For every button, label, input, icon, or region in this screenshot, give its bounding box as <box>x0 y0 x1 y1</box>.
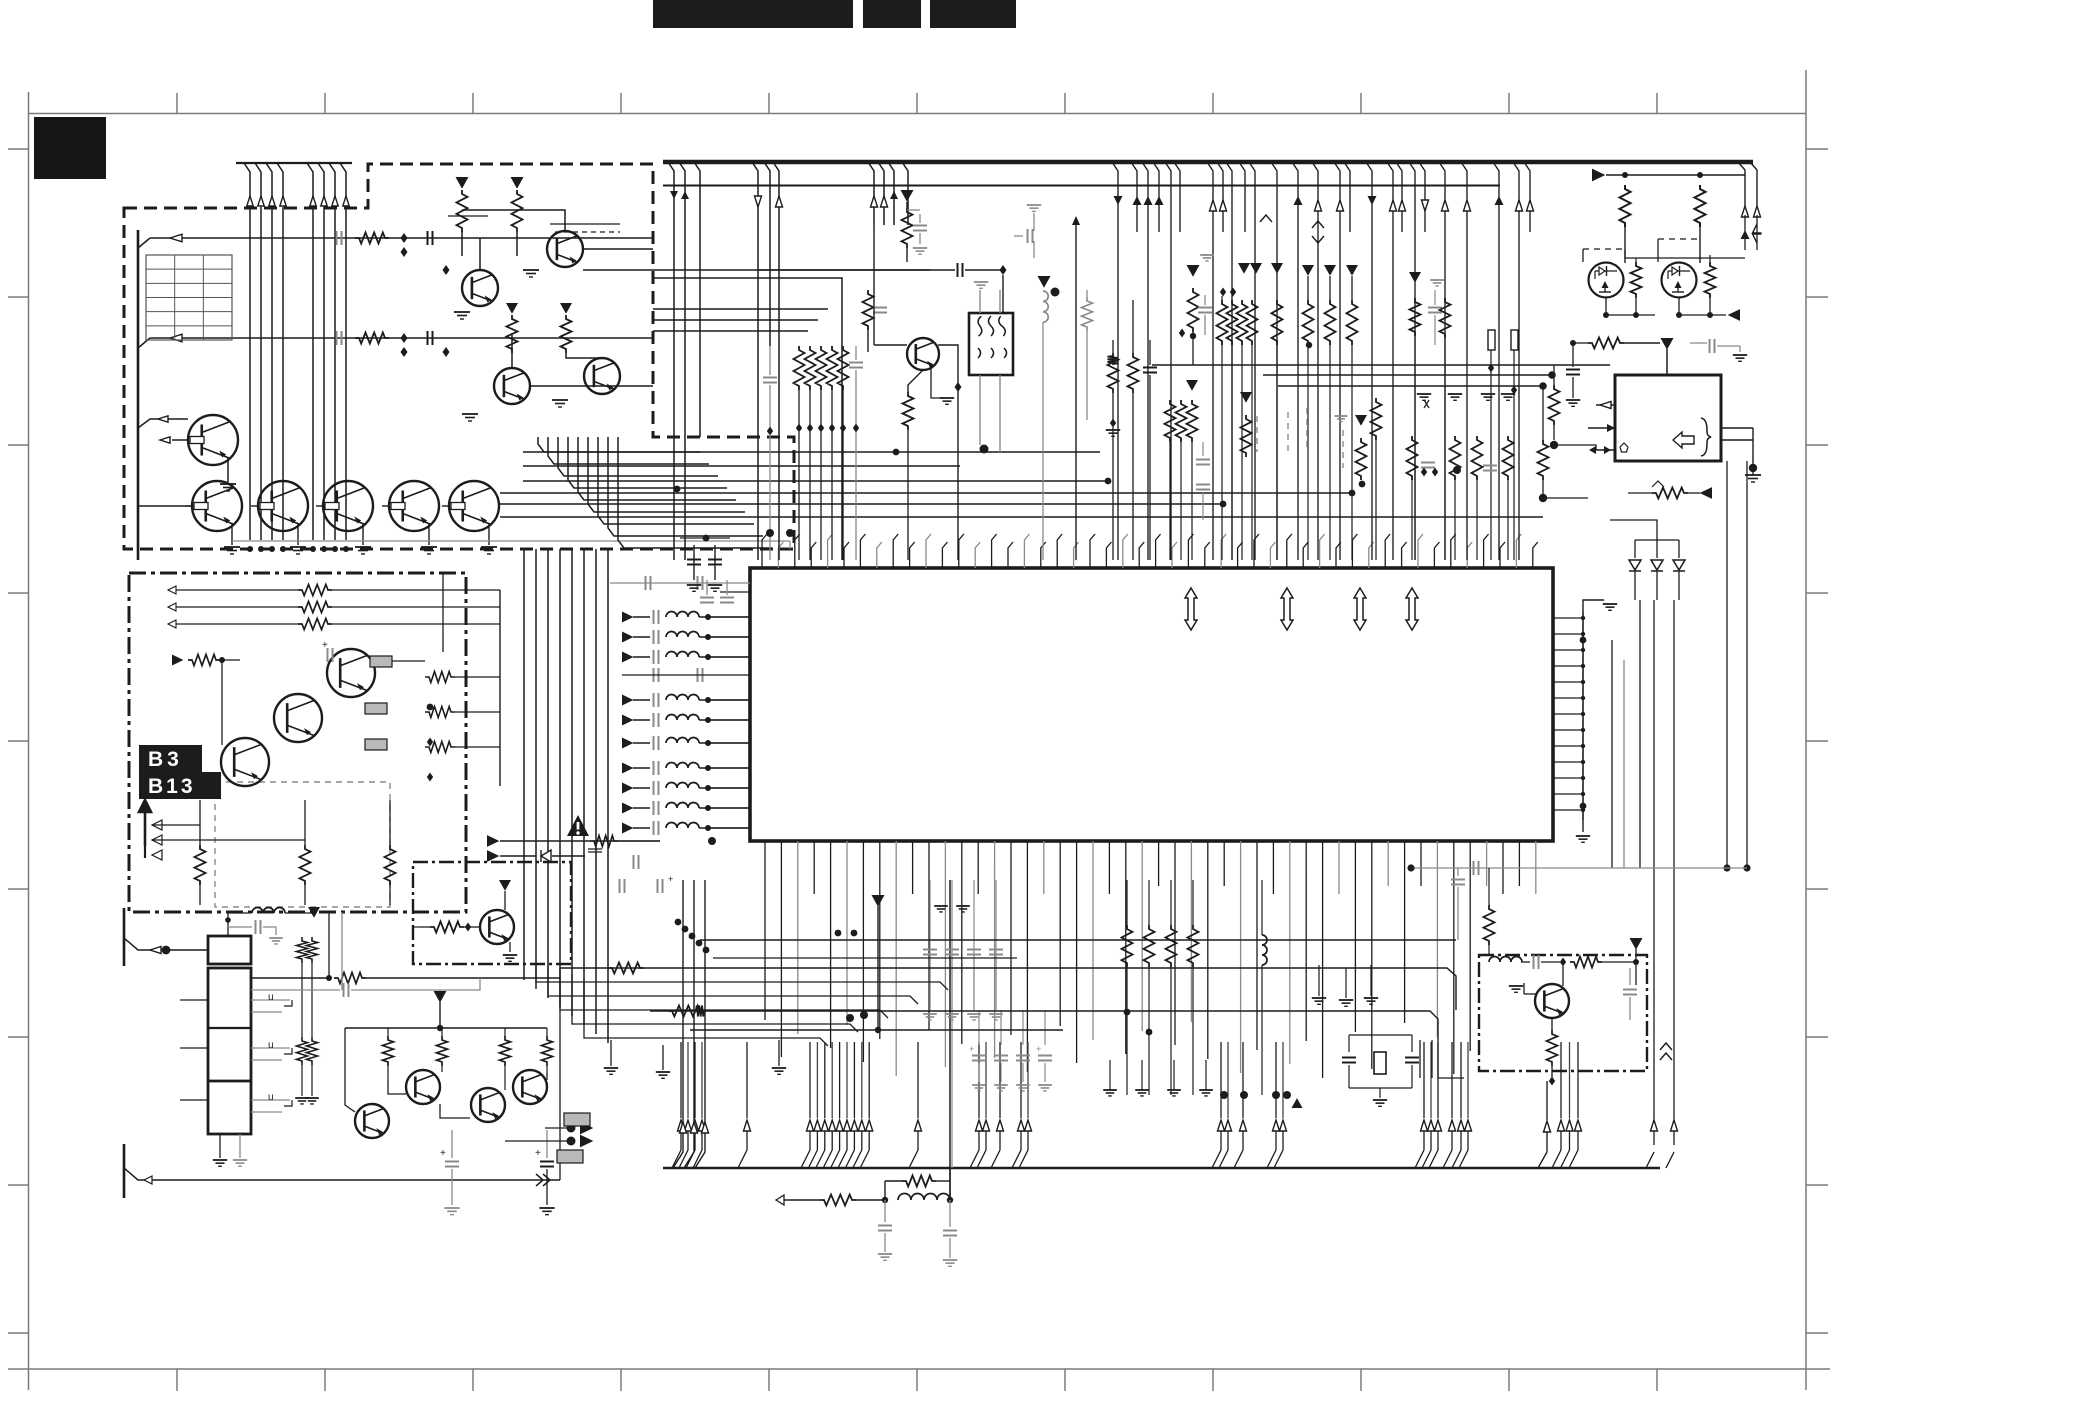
capacitor pair at IC corner <box>680 535 730 592</box>
resistor x1489 <box>1484 868 1495 955</box>
transistor Q1 <box>160 415 238 491</box>
dashed link <box>550 224 620 232</box>
video input LC filters <box>622 610 750 835</box>
left risers grounds <box>604 880 786 1078</box>
junction dots under IC <box>835 930 1303 1108</box>
sub transistor Q15 <box>413 880 517 961</box>
svg-text:u: u <box>268 1092 274 1103</box>
signal row 1 with arrow <box>138 234 653 248</box>
dash-dot box (SIF block) <box>1479 955 1647 1071</box>
resistor x1133 <box>1128 300 1139 560</box>
diode row D1-D3 <box>1610 520 1685 600</box>
driver row base bus <box>138 505 194 507</box>
bus secondary line <box>663 185 1500 187</box>
row junction dots <box>674 449 1356 508</box>
svg-text:u: u <box>268 992 274 1003</box>
SIF block Q16 <box>1489 938 1672 1086</box>
electrolytic cap cluster <box>969 1010 1213 1096</box>
resistor cluster D <box>1409 272 1451 560</box>
bus tap comb feeding tuner block <box>236 163 352 552</box>
svg-text:+: + <box>668 874 673 884</box>
RC row y270 <box>758 263 1007 352</box>
bus risers centre <box>949 880 951 1200</box>
dash-dot block outline (RGB out section) <box>129 573 466 912</box>
resistor x1113 <box>1108 340 1119 560</box>
vertical bundle to video filters <box>524 549 608 1043</box>
bus risers left <box>673 880 709 1168</box>
B3 arrow <box>139 800 390 860</box>
crystal X1 <box>1342 1035 1419 1106</box>
IC left pins <box>708 592 750 828</box>
rows 309-331 <box>653 309 828 331</box>
signal row 2 with arrow <box>138 334 653 348</box>
connector downlinks <box>1723 461 1750 872</box>
gray cap x1458 <box>1451 868 1465 940</box>
dash-dot box (sub transistor block) <box>413 862 571 964</box>
verticals from bus mid group <box>868 162 908 225</box>
below-bus input filter <box>776 1168 960 1266</box>
gray resistor x1087 <box>1082 290 1093 420</box>
block A left rail <box>137 230 140 560</box>
antenna inputs <box>124 908 560 1198</box>
resistor cluster B <box>1217 263 1284 560</box>
transistor Q11 <box>874 225 962 560</box>
svg-text:+: + <box>440 1148 446 1159</box>
audio electrolytics <box>440 1130 555 1215</box>
photo-coupler pair <box>1583 239 1740 321</box>
svg-text:+: + <box>969 1044 974 1054</box>
cap x1150 <box>1143 340 1157 560</box>
second tier RC field <box>1165 380 1382 560</box>
can grounds <box>213 1134 247 1166</box>
RGB output transistors Q12-Q14 <box>168 573 500 786</box>
can right components <box>251 937 560 1104</box>
gray caps cluster <box>700 580 734 603</box>
ground/return bus (bottom) <box>663 1167 1660 1170</box>
lower row bundle <box>536 962 948 1046</box>
supply RC group A <box>1179 255 1214 365</box>
sheet label black square <box>34 117 106 179</box>
IC bottom pin comb <box>765 841 1536 1078</box>
bias resistor cluster centre <box>763 346 863 560</box>
resistor cluster C <box>1302 265 1358 560</box>
regulator input RC <box>1566 338 1747 407</box>
svg-text:+: + <box>535 1148 541 1159</box>
spark gap row <box>487 835 716 893</box>
svg-text:u: u <box>268 1040 274 1051</box>
redacted title bar 3 <box>930 0 1016 28</box>
can pin stubs <box>180 992 292 1112</box>
bus riser bundles <box>672 1042 1582 1168</box>
can downstream verticals <box>326 912 342 1012</box>
supply RC at top <box>901 190 928 262</box>
chevron marks <box>1260 215 1324 243</box>
svg-text:+: + <box>1036 1044 1041 1054</box>
dashed block outline (tuner/AGC section) <box>124 164 794 549</box>
warning triangle <box>567 815 589 836</box>
power bus (top heavy line) <box>663 160 1753 165</box>
pin table grid <box>146 255 232 340</box>
signal row 3 with arrow <box>138 416 188 428</box>
coil under IC <box>1262 880 1267 1095</box>
RGB emitter resistors <box>195 800 396 905</box>
driver emitter ground rail <box>232 541 790 549</box>
redacted title bar 2 <box>863 0 921 28</box>
rows to right edge <box>1152 365 1610 390</box>
connector feed resistors <box>1538 365 1597 502</box>
verticals right of IC <box>1640 600 1679 1145</box>
column x1076 <box>1072 216 1080 560</box>
top right supply resistors <box>1592 162 1762 263</box>
IC right pin rail <box>1553 600 1624 868</box>
redacted title bar 1 <box>653 0 853 28</box>
svg-text:B13: B13 <box>148 775 196 798</box>
audio pair transistors <box>345 895 1063 1138</box>
right area links <box>1420 940 1479 1078</box>
jack/connector box <box>1588 375 1761 482</box>
audio out arrows <box>505 1113 593 1163</box>
label B3 <box>139 745 202 772</box>
RC column x1043 <box>1014 205 1060 560</box>
horizontal y940 <box>700 939 1456 941</box>
can top components <box>225 907 320 944</box>
IC top pin comb <box>762 534 1538 568</box>
riser dot chain <box>675 919 710 954</box>
cap above box G <box>1488 945 1490 955</box>
block B bias network and transistors Q7-Q10 <box>337 177 931 421</box>
svg-text:B3: B3 <box>148 748 183 771</box>
ceramic filter box <box>969 313 1013 375</box>
filter box wiring <box>980 290 1121 454</box>
resistor cluster under IC <box>1122 880 1199 1095</box>
IC U1 (main jungle IC) <box>750 568 1553 841</box>
inner dashed sub-box <box>215 782 390 907</box>
long signal rows crossing centre <box>500 452 1543 517</box>
resistor on 1011 <box>668 1006 704 1017</box>
ground-top RC cluster <box>1407 394 1516 560</box>
svg-text:+: + <box>322 640 328 651</box>
tuner/IF can <box>208 936 251 1134</box>
grounds row mid <box>1312 965 1378 1006</box>
row y278 <box>653 278 842 560</box>
gray link row 868 <box>1407 861 1747 875</box>
wavy resistor mark <box>1652 481 1664 487</box>
bus risers right <box>1538 1081 1678 1168</box>
verticals from bus left group <box>668 162 783 560</box>
CRT driver transistor row Q2-Q6 <box>185 481 499 554</box>
horizontal y1011 <box>650 1006 1438 1041</box>
top-right bus tap verticals <box>1112 162 1534 560</box>
small component rects <box>1488 330 1518 560</box>
LC row top caps <box>610 576 750 682</box>
label B13 <box>139 772 221 799</box>
IC internal bidirectional port arrows <box>1185 588 1418 630</box>
staircase wire bundle block B to center <box>538 437 772 548</box>
decoupling cap cluster A <box>923 880 1003 1168</box>
below connector resistor <box>1628 478 1712 499</box>
bottom comb long verticals <box>0 0 1 1</box>
horizontal y968 <box>560 963 1456 1011</box>
mid row y958 <box>713 957 1017 959</box>
